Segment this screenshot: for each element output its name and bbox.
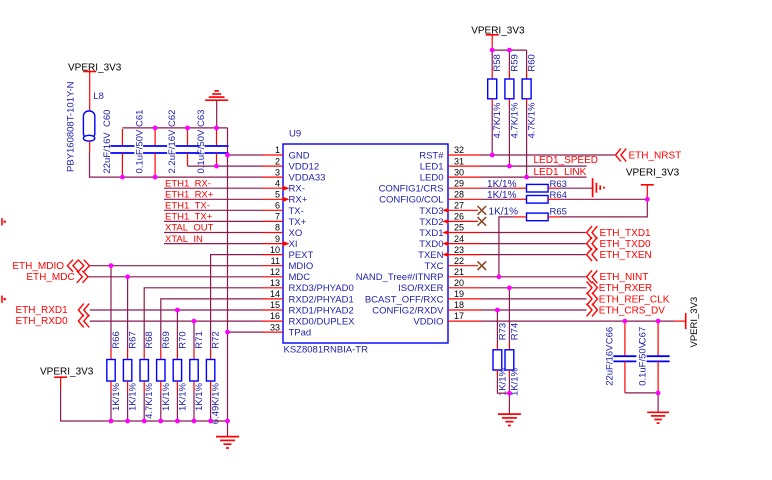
svg-text:XO: XO <box>289 228 303 239</box>
svg-text:RXD0/DUPLEX: RXD0/DUPLEX <box>289 316 356 327</box>
svg-text:C61: C61 <box>135 110 146 127</box>
svg-text:0.1uF/50V: 0.1uF/50V <box>638 341 649 385</box>
svg-text:1K/1%: 1K/1% <box>487 179 517 190</box>
svg-text:TXD0: TXD0 <box>419 239 443 250</box>
svg-text:7: 7 <box>275 212 280 222</box>
svg-text:C62: C62 <box>167 110 178 127</box>
svg-text:R60: R60 <box>527 54 538 71</box>
svg-text:1: 1 <box>275 145 280 155</box>
svg-text:R68: R68 <box>144 331 155 348</box>
svg-text:R74: R74 <box>509 323 520 340</box>
svg-text:R69: R69 <box>161 331 172 348</box>
svg-text:3: 3 <box>275 167 280 177</box>
svg-text:VPERI_3V3: VPERI_3V3 <box>40 367 94 378</box>
svg-text:KSZ8081RNBIA-TR: KSZ8081RNBIA-TR <box>284 345 369 356</box>
svg-text:ETH_CRS_DV: ETH_CRS_DV <box>599 305 665 316</box>
svg-text:13: 13 <box>270 278 280 288</box>
svg-text:R70: R70 <box>177 331 188 348</box>
svg-text:C67: C67 <box>638 327 649 344</box>
svg-text:1K/1%: 1K/1% <box>111 382 122 411</box>
svg-text:ETH_NINT: ETH_NINT <box>600 272 649 283</box>
svg-text:VDDA33: VDDA33 <box>289 173 326 184</box>
svg-text:TPad: TPad <box>289 328 312 339</box>
svg-text:BCAST_OFF/RXC: BCAST_OFF/RXC <box>365 294 444 305</box>
svg-text:32: 32 <box>454 145 464 155</box>
svg-text:VPERI_3V3: VPERI_3V3 <box>626 168 680 179</box>
svg-text:ETH_TXD1: ETH_TXD1 <box>600 228 652 239</box>
svg-text:21: 21 <box>454 267 464 277</box>
svg-text:XTAL_IN: XTAL_IN <box>165 234 203 245</box>
svg-text:30: 30 <box>454 167 464 177</box>
svg-text:28: 28 <box>454 190 464 200</box>
svg-text:4.7K/1%: 4.7K/1% <box>527 102 538 138</box>
svg-text:CONFIG0/COL: CONFIG0/COL <box>379 195 443 206</box>
svg-text:5: 5 <box>275 190 280 200</box>
svg-text:2.2uF/16V: 2.2uF/16V <box>167 129 178 173</box>
svg-text:4.7K/1%: 4.7K/1% <box>492 102 503 138</box>
svg-text:RX-: RX- <box>289 184 305 195</box>
svg-text:31: 31 <box>454 156 464 166</box>
svg-text:26: 26 <box>454 212 464 222</box>
svg-text:ETH1_TX-: ETH1_TX- <box>165 201 210 212</box>
svg-text:19: 19 <box>454 289 464 299</box>
svg-text:1K/1%: 1K/1% <box>177 382 188 411</box>
svg-text:R73: R73 <box>497 323 508 340</box>
svg-text:ETH_RXD1: ETH_RXD1 <box>15 305 68 316</box>
svg-text:6: 6 <box>275 201 280 211</box>
svg-text:22: 22 <box>454 256 464 266</box>
svg-text:14: 14 <box>270 289 280 299</box>
svg-text:ETH_REF_CLK: ETH_REF_CLK <box>599 294 670 305</box>
svg-text:20: 20 <box>454 278 464 288</box>
svg-text:25: 25 <box>454 223 464 233</box>
svg-text:11: 11 <box>271 256 280 266</box>
svg-text:TX+: TX+ <box>289 217 307 228</box>
svg-text:9: 9 <box>275 234 280 244</box>
svg-text:RXD3/PHYAD0: RXD3/PHYAD0 <box>289 283 354 294</box>
svg-text:LED1_SPEED: LED1_SPEED <box>534 155 598 166</box>
svg-text:LED1: LED1 <box>420 162 444 173</box>
svg-text:0.1uF/50V: 0.1uF/50V <box>196 129 207 173</box>
svg-text:33: 33 <box>270 322 280 332</box>
svg-text:ETH_TXD0: ETH_TXD0 <box>600 239 652 250</box>
svg-text:VPERI_3V3: VPERI_3V3 <box>689 297 700 348</box>
svg-text:R66: R66 <box>111 331 122 348</box>
svg-text:R65: R65 <box>550 207 567 218</box>
svg-text:RXD2/PHYAD1: RXD2/PHYAD1 <box>289 294 354 305</box>
svg-text:ISO/RXER: ISO/RXER <box>398 283 444 294</box>
svg-text:2: 2 <box>275 156 280 166</box>
svg-text:4: 4 <box>275 178 280 188</box>
svg-text:XTAL_OUT: XTAL_OUT <box>165 223 214 234</box>
svg-text:LED1_LINK: LED1_LINK <box>534 167 587 178</box>
svg-text:22uF/16V: 22uF/16V <box>102 132 113 174</box>
svg-text:LED0: LED0 <box>420 173 444 184</box>
svg-text:12: 12 <box>270 267 280 277</box>
svg-text:C63: C63 <box>196 110 207 127</box>
svg-text:TXD1: TXD1 <box>419 228 443 239</box>
svg-text:CONFIG1/CRS: CONFIG1/CRS <box>379 184 444 195</box>
svg-text:TXD2: TXD2 <box>419 217 443 228</box>
svg-text:24: 24 <box>454 234 464 244</box>
svg-text:4.7K/1%: 4.7K/1% <box>144 382 155 418</box>
svg-text:1K/1%: 1K/1% <box>497 367 508 396</box>
svg-text:RXD1/PHYAD2: RXD1/PHYAD2 <box>289 305 354 316</box>
svg-text:22uF/16V: 22uF/16V <box>604 344 615 386</box>
svg-text:TXD3: TXD3 <box>419 206 443 217</box>
svg-text:R63: R63 <box>550 179 567 190</box>
svg-text:R72: R72 <box>211 331 222 348</box>
svg-text:ETH1_RX-: ETH1_RX- <box>165 178 211 189</box>
svg-text:27: 27 <box>454 201 464 211</box>
svg-text:GND: GND <box>289 150 310 161</box>
svg-text:L8: L8 <box>93 91 104 102</box>
svg-text:ETH_NRST: ETH_NRST <box>629 150 682 161</box>
svg-text:RST#: RST# <box>419 150 444 161</box>
svg-text:C60: C60 <box>102 110 113 127</box>
svg-text:8: 8 <box>275 223 280 233</box>
svg-text:1K/1%: 1K/1% <box>128 382 139 411</box>
svg-text:TX-: TX- <box>289 206 304 217</box>
svg-text:10: 10 <box>270 245 280 255</box>
svg-text:R67: R67 <box>128 331 139 348</box>
svg-text:TXC: TXC <box>425 261 444 272</box>
svg-text:ETH1_TX+: ETH1_TX+ <box>165 212 213 223</box>
svg-text:VDDIO: VDDIO <box>413 316 443 327</box>
svg-text:TXEN: TXEN <box>418 250 443 261</box>
svg-text:ETH_RXER: ETH_RXER <box>599 283 652 294</box>
svg-text:C66: C66 <box>604 327 615 344</box>
svg-text:ETH_TXEN: ETH_TXEN <box>600 250 652 261</box>
svg-text:1K/1%: 1K/1% <box>194 382 205 411</box>
svg-text:1K/1%: 1K/1% <box>489 207 519 218</box>
svg-text:R64: R64 <box>550 190 567 201</box>
svg-text:ETH_RXD0: ETH_RXD0 <box>15 316 68 327</box>
svg-text:15: 15 <box>270 300 280 310</box>
svg-text:R58: R58 <box>492 54 503 71</box>
svg-text:PBY160808T-101Y-N: PBY160808T-101Y-N <box>66 81 77 172</box>
svg-text:RX+: RX+ <box>289 195 308 206</box>
svg-text:17: 17 <box>454 311 464 321</box>
svg-text:PEXT: PEXT <box>289 250 314 261</box>
svg-text:1K/1%: 1K/1% <box>161 382 172 411</box>
svg-text:MDC: MDC <box>289 272 311 283</box>
svg-text:29: 29 <box>454 178 464 188</box>
svg-text:XI: XI <box>289 239 298 250</box>
svg-text:4.7K/1%: 4.7K/1% <box>509 102 520 138</box>
svg-text:CONFIG2/RXDV: CONFIG2/RXDV <box>372 305 444 316</box>
svg-text:ETH1_RX+: ETH1_RX+ <box>165 190 214 201</box>
svg-text:U9: U9 <box>289 129 301 140</box>
svg-text:NAND_Tree#/ITNRP: NAND_Tree#/ITNRP <box>356 272 444 283</box>
svg-text:1K/1%: 1K/1% <box>487 190 517 201</box>
svg-text:ETH_MDIO: ETH_MDIO <box>12 261 64 272</box>
svg-text:R59: R59 <box>509 54 520 71</box>
svg-text:18: 18 <box>454 300 464 310</box>
svg-text:VDD12: VDD12 <box>289 162 320 173</box>
svg-text:MDIO: MDIO <box>289 261 314 272</box>
svg-text:0.1uF/50V: 0.1uF/50V <box>135 129 146 173</box>
svg-text:6.49K/1%: 6.49K/1% <box>211 382 222 424</box>
svg-text:23: 23 <box>454 245 464 255</box>
svg-text:16: 16 <box>270 311 280 321</box>
svg-text:ETH_MDC: ETH_MDC <box>26 272 74 283</box>
svg-text:R71: R71 <box>194 331 205 348</box>
